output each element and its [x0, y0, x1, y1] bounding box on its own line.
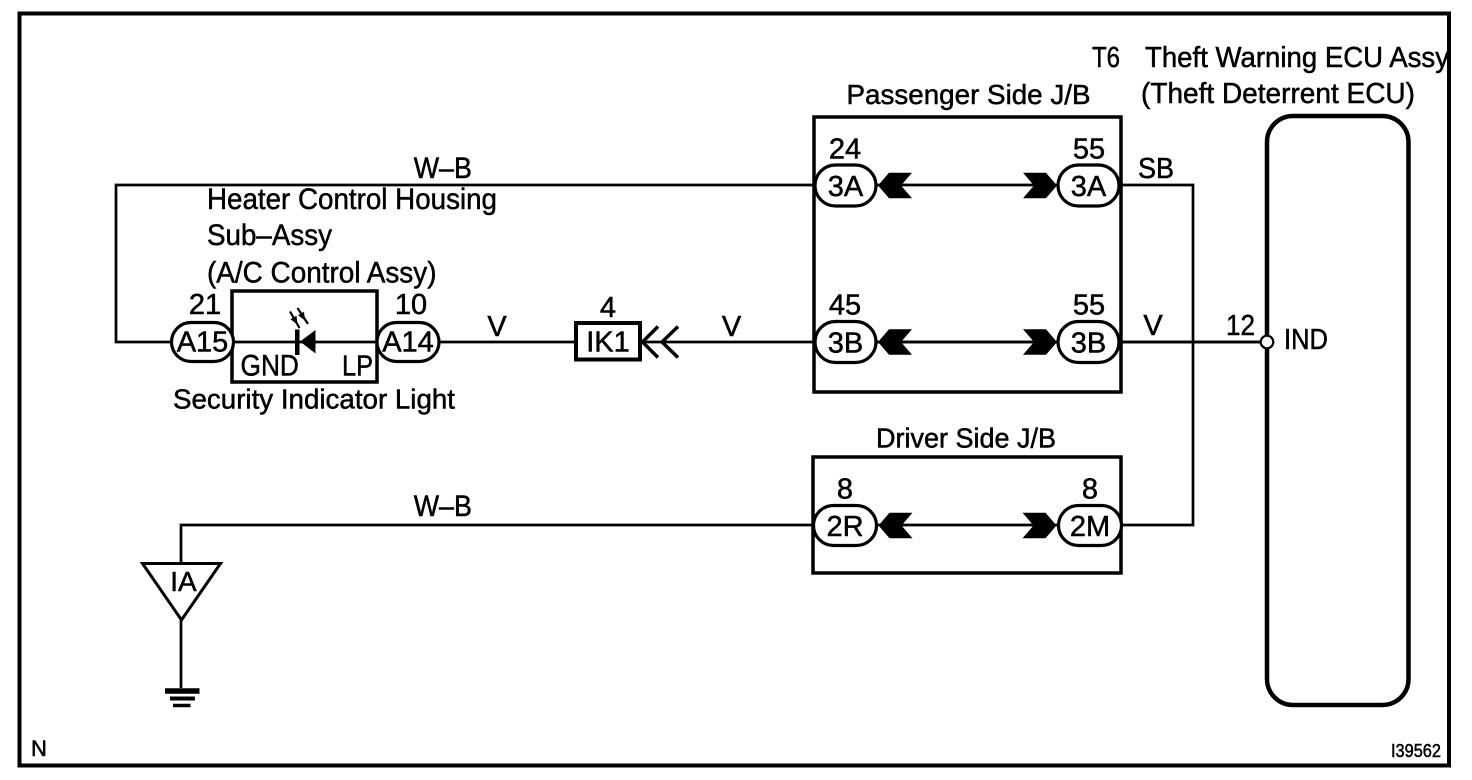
- svg-text:10: 10: [395, 289, 427, 321]
- svg-text:Driver Side J/B: Driver Side J/B: [876, 423, 1056, 454]
- svg-text:W–B: W–B: [414, 490, 472, 523]
- svg-text:V: V: [1143, 310, 1163, 342]
- svg-text:2R: 2R: [826, 511, 863, 543]
- svg-text:SB: SB: [1138, 153, 1174, 185]
- svg-text:W–B: W–B: [414, 152, 472, 185]
- svg-text:3B: 3B: [828, 328, 863, 360]
- svg-text:8: 8: [837, 474, 853, 506]
- svg-text:3A: 3A: [1071, 171, 1107, 203]
- svg-text:55: 55: [1073, 134, 1105, 166]
- svg-text:V: V: [722, 311, 742, 343]
- svg-text:55: 55: [1073, 290, 1105, 322]
- svg-text:IK1: IK1: [586, 327, 630, 359]
- svg-text:N: N: [31, 736, 47, 761]
- svg-text:24: 24: [829, 134, 861, 166]
- svg-text:8: 8: [1082, 474, 1098, 506]
- svg-text:V: V: [487, 311, 507, 343]
- svg-text:Sub–Assy: Sub–Assy: [207, 219, 332, 252]
- svg-text:A15: A15: [177, 327, 229, 359]
- svg-text:I39562: I39562: [1391, 741, 1441, 761]
- svg-text:IA: IA: [170, 566, 197, 597]
- svg-text:3B: 3B: [1071, 328, 1106, 360]
- svg-text:21: 21: [189, 289, 221, 321]
- svg-text:A14: A14: [382, 327, 434, 359]
- svg-text:LP: LP: [342, 351, 373, 383]
- svg-text:Security Indicator Light: Security Indicator Light: [173, 384, 455, 415]
- svg-text:(Theft Deterrent ECU): (Theft Deterrent ECU): [1141, 78, 1415, 110]
- svg-text:45: 45: [829, 290, 861, 322]
- svg-text:Passenger Side J/B: Passenger Side J/B: [847, 79, 1091, 110]
- svg-text:4: 4: [600, 292, 616, 324]
- svg-text:(A/C Control Assy): (A/C Control Assy): [207, 257, 437, 290]
- svg-text:3A: 3A: [828, 171, 864, 203]
- svg-text:2M: 2M: [1070, 511, 1110, 543]
- svg-text:IND: IND: [1284, 324, 1328, 356]
- svg-text:Theft Warning ECU Assy: Theft Warning ECU Assy: [1145, 42, 1449, 74]
- svg-text:GND: GND: [241, 350, 299, 383]
- svg-text:12: 12: [1226, 310, 1255, 342]
- svg-text:T6: T6: [1092, 42, 1120, 74]
- svg-text:Heater Control Housing: Heater Control Housing: [207, 183, 497, 216]
